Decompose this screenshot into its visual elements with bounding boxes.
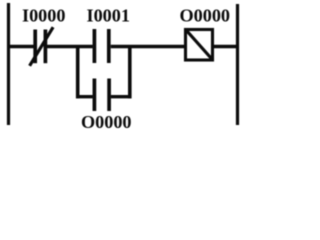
wire: coil to right rail: [213, 45, 238, 48]
wire: contact I0001 to coil O0000: [111, 45, 186, 48]
right power rail: [236, 4, 239, 125]
NO contact I0001: [94, 29, 108, 63]
parallel branch right vertical wire: [128, 45, 132, 98]
NO contact O0000 (branch): [94, 79, 109, 112]
wire: left rail to contact I0000: [7, 45, 35, 48]
branch wire: left vertical to contact O0000: [76, 95, 93, 98]
left power rail: [7, 3, 10, 125]
svg-text:O0000: O0000: [81, 112, 132, 132]
svg-text:I0001: I0001: [87, 6, 130, 26]
svg-text:I0000: I0000: [22, 6, 65, 26]
NC contact I0000: [30, 27, 53, 66]
output coil O0000 (box with diagonal): [186, 30, 214, 61]
parallel branch left vertical wire: [76, 45, 80, 98]
svg-text:O0000: O0000: [180, 6, 231, 26]
branch wire: contact O0000 to right vertical: [111, 95, 132, 98]
wire: contact I0000 to contact I0001: [45, 45, 92, 48]
